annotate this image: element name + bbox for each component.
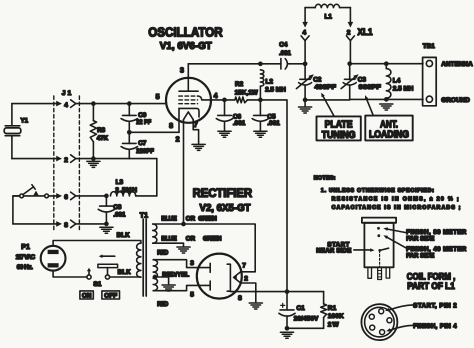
resistor R3 <box>92 104 94 121</box>
svg-text:2: 2 <box>347 30 351 37</box>
svg-text:LOADING: LOADING <box>369 130 409 141</box>
base pin 4 <box>380 330 385 335</box>
node C2 bottom <box>303 98 308 103</box>
node L3/C8 <box>104 194 109 199</box>
plug XL1 pin 4 <box>304 8 306 22</box>
svg-text:R2: R2 <box>235 81 244 88</box>
svg-text:C1: C1 <box>297 305 306 312</box>
V1 plate (pin 3) <box>179 64 198 91</box>
svg-text:6: 6 <box>64 194 68 201</box>
node C8 bottom <box>104 222 109 227</box>
svg-text:60 Hz.: 60 Hz. <box>17 264 33 271</box>
telegraph key <box>13 185 56 198</box>
ground <box>87 161 100 167</box>
svg-text:117 VAC: 117 VAC <box>16 254 36 261</box>
ground <box>254 131 267 137</box>
svg-text:OR: OR <box>186 215 196 222</box>
svg-text:ON: ON <box>82 292 92 299</box>
svg-text:BLUE: BLUE <box>161 215 176 222</box>
svg-text:V1, 6V6-GT: V1, 6V6-GT <box>160 41 212 52</box>
rectifier V2 envelope <box>197 254 242 299</box>
variable capacitor C2 <box>304 64 306 80</box>
svg-text:P1: P1 <box>21 244 30 251</box>
svg-text:C9: C9 <box>138 112 147 119</box>
svg-text:15K,1W: 15K,1W <box>235 89 259 96</box>
svg-text:L1: L1 <box>325 14 333 21</box>
J1 pin 8 <box>56 221 62 227</box>
wire filter bottom rail <box>287 327 324 329</box>
svg-text:GREEN: GREEN <box>198 215 217 222</box>
svg-text:NOTES:: NOTES: <box>314 175 336 181</box>
callout PLATE TUNING <box>317 116 361 140</box>
V2 plate pin 5 <box>209 281 211 290</box>
T1 heater winding <box>153 224 157 243</box>
svg-text:100K: 100K <box>328 313 344 320</box>
svg-text:22 PF: 22 PF <box>136 119 151 126</box>
ground <box>162 285 175 291</box>
svg-text:20/450V: 20/450V <box>294 316 319 323</box>
svg-text:V2, 6X5-GT: V2, 6X5-GT <box>200 203 251 214</box>
svg-text:900PF: 900PF <box>359 84 381 91</box>
wire cathode rail to V1 pin 8 <box>129 131 179 133</box>
svg-text:L4: L4 <box>393 77 401 84</box>
svg-text:.031: .031 <box>279 50 291 57</box>
svg-text:T1: T1 <box>140 213 148 220</box>
V2 plate pin 3 <box>209 263 211 272</box>
svg-text:ANTENNA: ANTENNA <box>441 61 473 68</box>
svg-text:RESISTANCE IS IN OHMS, ± 20 %: RESISTANCE IS IN OHMS, ± 20 % ; <box>332 197 459 203</box>
HV center tap <box>153 275 158 280</box>
V2 cathode <box>227 264 230 291</box>
wire key return loop <box>13 196 20 224</box>
svg-text:XL1: XL1 <box>358 27 373 37</box>
callout ANT. LOADING <box>365 116 412 141</box>
wire B+ riser to rectifier <box>260 100 287 292</box>
V2 heater <box>234 272 241 283</box>
capacitor C8 <box>105 196 107 206</box>
V1 screen lead (pin 4) <box>198 96 235 100</box>
wire ground rail to TB1 <box>386 98 423 100</box>
start point <box>378 249 381 252</box>
T1 primary winding <box>137 243 141 277</box>
svg-text:4: 4 <box>302 30 306 37</box>
inductor L4 <box>385 64 387 69</box>
svg-text:PART OF L1: PART OF L1 <box>407 281 455 291</box>
svg-text:7: 7 <box>194 122 198 129</box>
svg-text:47K: 47K <box>97 135 109 142</box>
svg-text:2: 2 <box>176 136 180 143</box>
svg-text:5: 5 <box>190 292 194 299</box>
V2 pin 7 lead <box>241 271 256 273</box>
V1 beam cathode <box>179 108 199 117</box>
wire C3 bottom to L4 <box>350 98 387 100</box>
svg-text:C2: C2 <box>313 77 322 84</box>
node V1 heater junction <box>181 222 186 227</box>
svg-text:4: 4 <box>214 93 218 100</box>
svg-text:FINISH, PIN 4: FINISH, PIN 4 <box>413 323 457 330</box>
resistor R2 <box>235 97 248 103</box>
node C9/C7 junction <box>127 130 132 135</box>
svg-text:RED: RED <box>157 250 169 256</box>
svg-text:RED: RED <box>157 302 169 308</box>
ground <box>192 144 205 150</box>
svg-text:2.5 MH: 2.5 MH <box>265 86 286 93</box>
V1 heater pin 7 lead <box>193 120 198 144</box>
svg-text:R1: R1 <box>328 305 337 312</box>
ground <box>177 247 190 253</box>
crystal Y1 <box>4 104 21 159</box>
variable capacitor C3 <box>349 64 351 80</box>
node B+ riser <box>285 289 290 294</box>
svg-text:2.5MH: 2.5MH <box>115 187 137 194</box>
node R3 top <box>91 101 96 106</box>
svg-text:8: 8 <box>169 123 173 130</box>
node C3 top <box>347 61 352 66</box>
J1 pin 6 <box>56 193 62 199</box>
coil form pins <box>368 267 372 278</box>
svg-text:START, PIN 2: START, PIN 2 <box>413 303 457 310</box>
svg-text:4: 4 <box>64 102 68 109</box>
wire Y1 bottom to J1 pin 2 <box>12 158 56 160</box>
V1 heater pin 2 lead <box>183 120 185 224</box>
node screen/C6 <box>222 98 227 103</box>
wire ground rail <box>76 158 157 160</box>
wire HV top to V2 plate 3 <box>153 260 210 268</box>
label ON <box>80 291 93 299</box>
node L4 bottom <box>384 97 389 102</box>
svg-text:OSCILLATOR: OSCILLATOR <box>148 24 223 39</box>
wire J1 pin4 to V1 grid <box>76 103 166 105</box>
svg-text:RED/YEL: RED/YEL <box>162 272 189 278</box>
J1 pin 2 <box>56 156 62 162</box>
base pin <box>370 325 375 330</box>
wire heater winding bottom <box>153 243 184 247</box>
node C9 top <box>127 101 132 106</box>
svg-text:L2: L2 <box>266 78 274 85</box>
node C2 top <box>303 61 308 66</box>
V1 grids <box>179 95 198 97</box>
base pin 2 <box>379 309 384 314</box>
svg-text:1. UNLESS OTHERWISE SPECIFIED:: 1. UNLESS OTHERWISE SPECIFIED: <box>321 188 434 194</box>
wire tank bottom rail <box>305 99 350 101</box>
svg-text:J 1: J 1 <box>62 90 72 97</box>
ground <box>218 131 231 137</box>
label OFF <box>102 291 120 299</box>
svg-text:220PF: 220PF <box>136 148 154 155</box>
ground <box>249 303 262 309</box>
svg-text:2: 2 <box>64 157 68 164</box>
svg-text:.001: .001 <box>267 120 280 127</box>
ground <box>380 104 393 110</box>
svg-text:R3: R3 <box>97 127 105 134</box>
svg-text:BLK: BLK <box>118 270 132 276</box>
svg-text:FAR SIDE: FAR SIDE <box>406 236 434 243</box>
V2 pin 2 lead <box>241 283 256 303</box>
op V1 tube envelope <box>166 78 211 123</box>
svg-text:C8: C8 <box>113 204 121 211</box>
node L2 top <box>258 61 263 66</box>
coil form base view <box>361 304 397 340</box>
capacitor C5 <box>259 100 261 116</box>
wire P1 top to T1 primary <box>53 241 141 246</box>
capacitor C9 <box>128 104 130 116</box>
svg-text:S1: S1 <box>93 281 101 288</box>
svg-text:COIL FORM ,: COIL FORM , <box>407 271 456 281</box>
svg-text:L3: L3 <box>116 179 124 186</box>
svg-text:BLK: BLK <box>117 233 131 239</box>
wire antenna rail <box>350 63 423 65</box>
capacitor C4 <box>260 63 281 65</box>
wire heater winding top <box>153 224 256 272</box>
wire HV bottom to V2 plate 5 <box>153 285 210 290</box>
svg-text:400PF: 400PF <box>315 84 337 91</box>
wire P1 bottom to S1 <box>53 271 87 277</box>
finish point 40m <box>377 234 380 237</box>
svg-text:.001: .001 <box>113 211 126 218</box>
svg-text:GROUND: GROUND <box>441 97 470 104</box>
wire link ground rail to L3 line <box>156 159 158 196</box>
terminal board TB1 <box>423 57 437 105</box>
wire pin8 row <box>13 223 56 225</box>
capacitor C6 <box>224 100 226 116</box>
svg-text:RECTIFIER: RECTIFIER <box>193 186 253 200</box>
plug P1 <box>41 246 66 271</box>
switch S1 <box>87 275 91 279</box>
transformer T1 core <box>143 219 146 296</box>
node L4 top <box>384 61 389 66</box>
base pin <box>369 314 374 319</box>
node R3 bottom <box>91 156 96 161</box>
leader to C2 <box>323 95 335 116</box>
node L2 bottom / B+ <box>258 98 263 103</box>
ground <box>280 332 293 338</box>
plug XL1 pin 2 <box>349 8 351 22</box>
ground <box>299 107 312 113</box>
svg-text:.001: .001 <box>233 120 246 127</box>
wire pin6 to L3 <box>76 195 107 197</box>
resistor R1 <box>323 292 325 304</box>
capacitor C1 <box>286 292 288 310</box>
capacitor C7 <box>128 132 130 143</box>
coil form lead (dashed) <box>379 251 381 268</box>
node C1 bottom <box>285 326 290 331</box>
svg-text:OFF: OFF <box>104 292 117 299</box>
svg-text:8: 8 <box>238 295 242 302</box>
wire B+ top rail <box>188 63 260 65</box>
svg-text:3: 3 <box>180 67 184 74</box>
inductor L2 <box>260 70 263 86</box>
connector J1 shell (dashed) <box>53 96 55 231</box>
svg-text:FAR SIDE: FAR SIDE <box>406 253 434 260</box>
V1 cathode lead (pin 8) <box>178 108 180 132</box>
svg-text:5: 5 <box>156 94 160 101</box>
coil form body <box>364 223 393 267</box>
svg-text:Y1: Y1 <box>21 117 29 124</box>
svg-text:2: 2 <box>244 276 248 283</box>
ground <box>100 227 113 233</box>
svg-text:8: 8 <box>64 222 68 229</box>
svg-text:OR: OR <box>186 235 196 242</box>
svg-text:7: 7 <box>242 263 246 270</box>
svg-text:C7: C7 <box>138 140 147 147</box>
svg-text:2 W: 2 W <box>328 322 340 329</box>
svg-text:TB1: TB1 <box>423 43 435 50</box>
inductor L3 <box>111 192 136 196</box>
svg-text:3: 3 <box>190 260 194 267</box>
svg-text:C3: C3 <box>358 77 367 84</box>
svg-text:CAPACITANCE IS IN MICROFARADS: CAPACITANCE IS IN MICROFARADS ; <box>332 205 461 211</box>
J1 pin 4 <box>56 101 62 107</box>
wire cathode B+ rail <box>230 291 323 293</box>
base pin <box>387 318 392 323</box>
svg-text:BLUE: BLUE <box>161 235 176 242</box>
inductor L1 <box>305 7 315 9</box>
svg-text:C4: C4 <box>279 41 288 48</box>
T1 HV winding <box>153 260 157 291</box>
V1 heater <box>184 112 194 120</box>
svg-text:GREEN: GREEN <box>203 235 222 242</box>
coil form cap <box>362 218 396 223</box>
finish point 80m <box>377 227 380 230</box>
wire Y1 top to J1 pin 4 <box>12 103 56 105</box>
leader to C3 <box>366 98 373 116</box>
svg-text:TUNING: TUNING <box>322 130 356 141</box>
svg-text:NEAR SIDE: NEAR SIDE <box>316 248 351 255</box>
svg-text:2.5 MH: 2.5 MH <box>393 85 414 92</box>
wire S1 to T1 primary bottom <box>110 276 141 278</box>
